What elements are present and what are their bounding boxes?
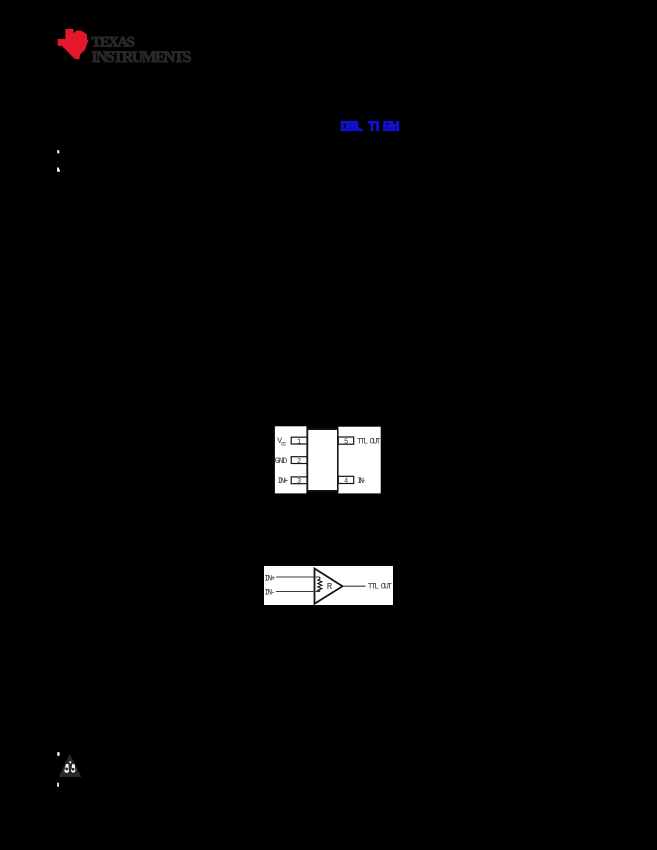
left pin-label panel: [275, 426, 307, 493]
comparator U1 triangle: [315, 569, 343, 604]
svg-text:IN+: IN+: [264, 574, 275, 583]
warning triangle (legal notice icon): [59, 754, 82, 777]
wire IN+: [276, 576, 320, 578]
TI logo red Texas map: [58, 29, 88, 59]
wire IN-: [276, 591, 320, 593]
svg-text:4: 4: [344, 478, 348, 486]
svg-text:TI: TI: [368, 119, 379, 134]
svg-text:GND: GND: [275, 457, 288, 466]
resistor R zigzag: [318, 577, 322, 592]
svg-text:IN+: IN+: [277, 477, 288, 486]
scales icon: [69, 761, 71, 763]
svg-text:INSTRUMENTS: INSTRUMENTS: [91, 49, 191, 66]
svg-text:5: 5: [344, 438, 348, 446]
pin 2 box: [291, 457, 307, 464]
figure background: [264, 566, 393, 605]
svg-text:TTL OUT: TTL OUT: [357, 438, 381, 447]
svg-text:R: R: [327, 582, 333, 592]
feature bullet mark 1: [57, 150, 59, 153]
svg-text:CC: CC: [281, 440, 287, 447]
svg-text:DBSL: DBSL: [341, 119, 363, 134]
svg-text:1: 1: [297, 438, 301, 446]
Figure 2: logic diagram: [264, 566, 393, 605]
right pin-label panel: [338, 427, 380, 494]
svg-text:IN-: IN-: [357, 477, 366, 486]
pin 5 box: [338, 437, 353, 444]
small white dash: [57, 783, 59, 787]
svg-text:RAH: RAH: [383, 119, 400, 134]
svg-text:3: 3: [297, 478, 301, 486]
svg-text:2: 2: [297, 458, 301, 466]
pin 1 box: [291, 437, 307, 444]
wire output: [343, 585, 366, 587]
Figure 1: package pinout: [275, 426, 381, 493]
IC package body: [307, 429, 337, 491]
svg-text:IN-: IN-: [264, 589, 275, 598]
pin 4 box: [338, 476, 353, 483]
pin 3 box: [291, 477, 307, 484]
white square mark: [57, 752, 59, 756]
feature bullet mark 2: [57, 167, 60, 171]
svg-text:TTL OUT: TTL OUT: [368, 583, 393, 592]
